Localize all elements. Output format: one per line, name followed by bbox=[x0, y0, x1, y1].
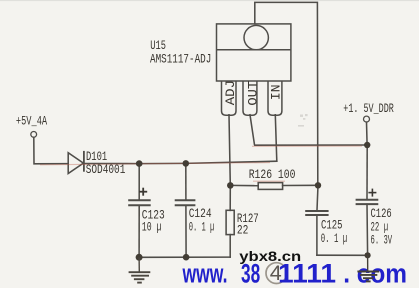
wire OUT tab loop over package bbox=[255, 2, 318, 185]
wire R126 row left bbox=[230, 184, 258, 186]
svg-text:. com: . com bbox=[343, 258, 407, 288]
svg-text:C124: C124 bbox=[189, 207, 212, 221]
wire main +5V rail from diode to IN corner bbox=[85, 161, 277, 163]
svg-text:6. 3V: 6. 3V bbox=[371, 233, 393, 247]
svg-text:1111: 1111 bbox=[278, 258, 336, 288]
node output rail junction bbox=[364, 142, 370, 148]
svg-text:22: 22 bbox=[237, 224, 249, 238]
svg-text:0. 1 µ: 0. 1 µ bbox=[189, 221, 215, 235]
svg-text:38: 38 bbox=[241, 258, 260, 288]
op-amp U15 package AMS1117 TO-220 bbox=[217, 24, 291, 115]
capacitor C126 plates bbox=[357, 199, 378, 201]
svg-text:U15: U15 bbox=[150, 39, 166, 53]
svg-text:10 µ: 10 µ bbox=[142, 221, 162, 235]
resistor R126 bbox=[258, 183, 282, 190]
svg-text:SOD4001: SOD4001 bbox=[86, 163, 126, 177]
wire R126 row right bbox=[283, 184, 318, 186]
wire from +5V terminal to diode bbox=[34, 137, 68, 164]
node C125/C126 ground bbox=[365, 252, 371, 258]
node C124 ground bbox=[183, 254, 190, 261]
capacitor C123 plates bbox=[129, 199, 150, 201]
pin OUT leg bbox=[243, 81, 257, 115]
capacitor C126 leads bbox=[366, 145, 368, 199]
svg-text:IN: IN bbox=[269, 84, 284, 100]
svg-text:C126: C126 bbox=[371, 207, 392, 221]
capacitor C125 leads bbox=[317, 185, 318, 210]
faint scan red fringes bbox=[40, 146, 362, 181]
wire R127 bottom lead bbox=[229, 235, 231, 258]
capacitor C123 leads bbox=[138, 164, 140, 200]
svg-text:0. 1 µ: 0. 1 µ bbox=[321, 232, 348, 246]
wire R127 top lead bbox=[229, 185, 231, 210]
node +5V_4A terminal bbox=[31, 132, 37, 138]
ground right bbox=[357, 255, 379, 281]
faint scan smudges bbox=[298, 114, 308, 127]
capacitor C125 plates bbox=[306, 210, 327, 212]
diode D101 bbox=[68, 153, 83, 174]
node C123 ground bbox=[136, 254, 143, 261]
node rail-C124 bbox=[183, 160, 190, 167]
resistor R127 bbox=[226, 210, 234, 234]
capacitor C126 plus sign bbox=[368, 189, 376, 197]
svg-text:AMS1117-ADJ: AMS1117-ADJ bbox=[150, 52, 211, 66]
svg-text:www.: www. bbox=[182, 258, 228, 288]
capacitor C124 plates bbox=[176, 199, 195, 201]
wire IN pin vertical bbox=[275, 115, 277, 161]
svg-text:C125: C125 bbox=[321, 218, 343, 232]
pin IN leg bbox=[268, 81, 282, 115]
ground left bbox=[129, 257, 151, 282]
svg-text:D101: D101 bbox=[86, 150, 107, 164]
node +1.5V_DDR terminal bbox=[364, 116, 370, 122]
wire OUT pin down and right to output rail bbox=[250, 115, 367, 145]
capacitor C123 plus sign bbox=[139, 188, 147, 196]
wire ADJ pin vertical down to ADJ node bbox=[229, 115, 230, 186]
svg-text:+5V_4A: +5V_4A bbox=[16, 114, 48, 128]
watermark circled 4 bbox=[266, 263, 287, 284]
node ADJ junction bbox=[227, 182, 234, 189]
svg-text:R126 100: R126 100 bbox=[249, 168, 296, 182]
node rail-C123 bbox=[136, 160, 143, 167]
capacitor C124 leads bbox=[185, 163, 187, 199]
svg-text:OUT: OUT bbox=[245, 81, 260, 106]
pin ADJ leg bbox=[222, 81, 237, 115]
svg-text:ADJ: ADJ bbox=[223, 80, 238, 105]
node R126-OUT junction bbox=[315, 182, 321, 188]
junction dots bbox=[136, 142, 371, 261]
svg-text:+1. 5V_DDR: +1. 5V_DDR bbox=[343, 102, 394, 116]
wire left ground rail bbox=[139, 256, 230, 258]
wire output terminal drop bbox=[366, 122, 369, 145]
wire right ground rail bbox=[317, 254, 368, 256]
